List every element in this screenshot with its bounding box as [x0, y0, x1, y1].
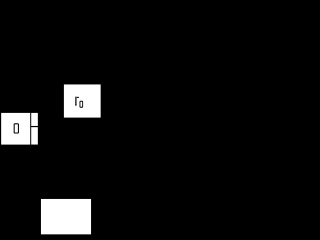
node 0 box — [1, 113, 30, 145]
label r0 : letter r — [75, 97, 79, 106]
label r0 : subscript 0 — [80, 101, 84, 108]
subdivided cell : bottom — [31, 127, 38, 144]
node r0 box — [64, 84, 101, 117]
subdivided cell : top — [31, 113, 38, 126]
bottom box — [41, 199, 91, 234]
label 0 glyph — [14, 123, 19, 133]
